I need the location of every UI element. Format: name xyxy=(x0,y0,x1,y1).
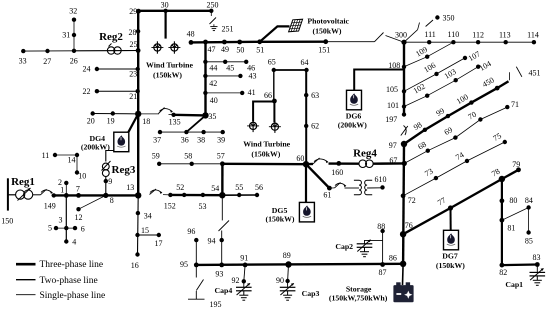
svg-text:160: 160 xyxy=(331,168,343,177)
svg-text:32: 32 xyxy=(69,6,77,15)
svg-text:(150kW): (150kW) xyxy=(312,27,341,36)
svg-text:56: 56 xyxy=(255,183,263,192)
svg-text:61: 61 xyxy=(323,190,331,199)
svg-text:33: 33 xyxy=(19,56,27,65)
svg-text:22: 22 xyxy=(83,87,91,96)
svg-text:7: 7 xyxy=(76,185,80,194)
svg-text:59: 59 xyxy=(152,152,160,161)
svg-text:Reg4: Reg4 xyxy=(353,148,377,160)
svg-text:2: 2 xyxy=(58,178,62,187)
svg-text:76: 76 xyxy=(405,221,413,230)
svg-text:84: 84 xyxy=(525,196,533,205)
svg-text:41: 41 xyxy=(248,88,256,97)
svg-text:82: 82 xyxy=(499,268,507,277)
svg-text:31: 31 xyxy=(62,31,70,40)
svg-text:Cap4: Cap4 xyxy=(215,286,233,295)
svg-text:39: 39 xyxy=(217,135,225,144)
svg-text:66: 66 xyxy=(264,91,272,100)
svg-text:54: 54 xyxy=(211,184,219,193)
svg-text:DG7: DG7 xyxy=(442,252,458,261)
svg-text:97: 97 xyxy=(389,141,397,150)
svg-text:47: 47 xyxy=(208,45,216,54)
svg-text:71: 71 xyxy=(511,100,519,109)
svg-text:27: 27 xyxy=(43,57,51,66)
svg-text:20: 20 xyxy=(87,117,95,126)
svg-text:44: 44 xyxy=(209,63,217,72)
svg-text:17: 17 xyxy=(155,239,163,248)
svg-text:53: 53 xyxy=(199,202,207,211)
svg-text:49: 49 xyxy=(221,45,229,54)
svg-text:26: 26 xyxy=(70,56,78,65)
svg-text:110: 110 xyxy=(448,30,460,39)
svg-text:610: 610 xyxy=(375,175,387,184)
svg-text:29: 29 xyxy=(129,7,137,16)
svg-text:8: 8 xyxy=(110,196,114,205)
svg-text:48: 48 xyxy=(187,29,195,38)
svg-text:72: 72 xyxy=(408,196,416,205)
svg-text:18: 18 xyxy=(142,117,150,126)
svg-text:60: 60 xyxy=(296,154,304,163)
svg-text:9: 9 xyxy=(108,177,112,186)
svg-text:45: 45 xyxy=(226,63,234,72)
svg-text:451: 451 xyxy=(529,69,541,78)
svg-text:35: 35 xyxy=(208,112,216,121)
svg-text:197: 197 xyxy=(385,115,397,124)
svg-text:(150kW): (150kW) xyxy=(436,261,465,270)
svg-text:250: 250 xyxy=(207,1,219,10)
svg-text:64: 64 xyxy=(301,58,309,67)
svg-text:40: 40 xyxy=(210,96,218,105)
svg-text:89: 89 xyxy=(283,251,291,260)
svg-text:Three-phase line: Three-phase line xyxy=(40,260,104,270)
svg-text:88: 88 xyxy=(377,222,385,231)
svg-text:251: 251 xyxy=(222,25,234,34)
svg-text:Reg2: Reg2 xyxy=(99,31,123,43)
svg-text:51: 51 xyxy=(256,46,264,55)
svg-text:300: 300 xyxy=(395,30,407,39)
svg-text:30: 30 xyxy=(161,1,169,10)
svg-text:(200kW): (200kW) xyxy=(338,121,367,130)
svg-text:79: 79 xyxy=(512,160,520,169)
svg-text:3: 3 xyxy=(59,216,63,225)
svg-text:80: 80 xyxy=(509,196,517,205)
svg-text:96: 96 xyxy=(187,227,195,236)
svg-text:Single-phase line: Single-phase line xyxy=(40,291,106,301)
svg-text:92: 92 xyxy=(232,276,240,285)
svg-text:Two-phase line: Two-phase line xyxy=(40,276,98,286)
svg-text:12: 12 xyxy=(75,213,83,222)
svg-text:Cap3: Cap3 xyxy=(302,289,320,298)
svg-text:151: 151 xyxy=(318,45,330,54)
svg-text:(200kW): (200kW) xyxy=(81,143,110,152)
svg-text:14: 14 xyxy=(68,156,76,165)
svg-text:87: 87 xyxy=(379,268,387,277)
svg-text:111: 111 xyxy=(424,30,435,39)
svg-text:46: 46 xyxy=(247,63,255,72)
svg-text:114: 114 xyxy=(527,31,539,40)
svg-text:95: 95 xyxy=(180,260,188,269)
svg-text:42: 42 xyxy=(209,79,217,88)
svg-text:16: 16 xyxy=(131,261,139,270)
svg-text:19: 19 xyxy=(107,117,115,126)
svg-text:15: 15 xyxy=(141,226,149,235)
svg-text:(150kW,750kWh): (150kW,750kWh) xyxy=(329,294,388,303)
svg-text:63: 63 xyxy=(311,91,319,100)
svg-text:43: 43 xyxy=(249,72,257,81)
svg-text:DG6: DG6 xyxy=(346,112,362,121)
svg-text:91: 91 xyxy=(240,254,248,263)
svg-text:(150kW): (150kW) xyxy=(265,215,294,224)
svg-text:93: 93 xyxy=(215,270,223,279)
svg-text:101: 101 xyxy=(387,101,399,110)
svg-text:113: 113 xyxy=(499,31,511,40)
svg-text:85: 85 xyxy=(525,237,533,246)
svg-text:90: 90 xyxy=(276,276,284,285)
svg-text:21: 21 xyxy=(129,92,137,101)
svg-text:5: 5 xyxy=(48,224,52,233)
svg-text:Cap1: Cap1 xyxy=(505,280,523,289)
svg-text:112: 112 xyxy=(472,31,484,40)
svg-text:Reg3: Reg3 xyxy=(112,164,136,176)
svg-text:38: 38 xyxy=(197,135,205,144)
svg-text:28: 28 xyxy=(129,28,137,37)
svg-text:52: 52 xyxy=(176,183,184,192)
svg-text:11: 11 xyxy=(42,151,50,160)
svg-text:Cap2: Cap2 xyxy=(335,242,353,251)
svg-text:(150kW): (150kW) xyxy=(251,149,280,158)
svg-text:10: 10 xyxy=(78,172,86,181)
svg-text:150: 150 xyxy=(1,216,13,225)
svg-text:13: 13 xyxy=(126,183,134,192)
svg-text:83: 83 xyxy=(533,253,541,262)
svg-text:Wind Turbine: Wind Turbine xyxy=(243,140,290,149)
svg-text:58: 58 xyxy=(184,152,192,161)
svg-text:Photovoltaic: Photovoltaic xyxy=(307,16,349,25)
svg-text:6: 6 xyxy=(81,225,85,234)
svg-text:81: 81 xyxy=(507,223,515,232)
svg-text:195: 195 xyxy=(210,300,222,309)
svg-text:34: 34 xyxy=(144,212,152,221)
svg-text:23: 23 xyxy=(129,70,137,79)
svg-text:65: 65 xyxy=(268,58,276,67)
svg-text:50: 50 xyxy=(236,46,244,55)
svg-text:86: 86 xyxy=(389,254,397,263)
svg-text:62: 62 xyxy=(311,122,319,131)
svg-text:Reg1: Reg1 xyxy=(11,176,35,188)
svg-text:55: 55 xyxy=(235,183,243,192)
svg-text:24: 24 xyxy=(83,65,91,74)
svg-text:152: 152 xyxy=(164,201,176,210)
svg-text:4: 4 xyxy=(72,237,76,246)
svg-text:149: 149 xyxy=(44,201,56,210)
svg-text:37: 37 xyxy=(153,135,161,144)
svg-text:135: 135 xyxy=(169,118,181,127)
svg-text:108: 108 xyxy=(388,61,400,70)
svg-text:Storage: Storage xyxy=(346,284,372,293)
svg-text:94: 94 xyxy=(208,236,216,245)
svg-text:36: 36 xyxy=(181,135,189,144)
svg-text:(150kW): (150kW) xyxy=(153,70,182,79)
svg-text:350: 350 xyxy=(443,13,455,22)
svg-text:105: 105 xyxy=(386,85,398,94)
svg-text:57: 57 xyxy=(217,152,225,161)
svg-text:67: 67 xyxy=(389,156,397,165)
svg-text:25: 25 xyxy=(130,40,138,49)
svg-text:Wind Turbine: Wind Turbine xyxy=(146,61,193,70)
